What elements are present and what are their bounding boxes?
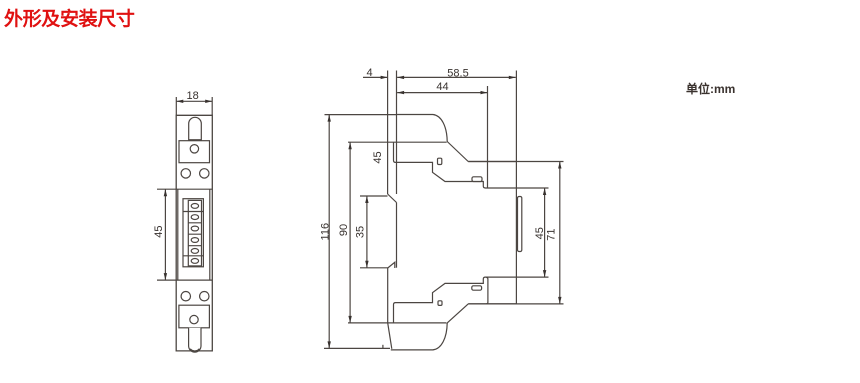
dimension 58.5 line [397,76,516,78]
terminal screw ellipse 4 [191,238,198,243]
extension line 116 bottom [324,347,390,349]
clip hook diagonal [388,262,395,268]
extension line 90 top / 45L top [348,141,447,143]
front bottom tab thick arc [190,349,200,351]
side front face [515,162,517,304]
extension line 35 bottom [360,267,388,269]
clip tail left edge [382,345,384,349]
clip outer edge [387,268,389,323]
title 外形及安装尺寸 [4,4,135,31]
side body top edge [397,114,434,116]
mid section inner left edge [177,189,179,280]
front top DIN tab [189,117,202,140]
dimension 18 line [176,100,212,102]
DIN groove chamfer [388,194,397,203]
extension line 35 top [360,195,388,197]
front view body outline [176,115,212,351]
dimension 90 arrows [348,142,351,323]
side bottom diagonal [447,304,468,323]
terminal full separator 1 [183,211,204,213]
svg-text:71: 71 [545,228,557,240]
dimension 90 line [349,142,351,323]
dimension 44 arrows [397,91,487,94]
dimension 4 leader line [363,76,388,78]
side back edge upper [396,115,398,195]
extension line 90 bottom [348,322,447,324]
front lower terminal block [179,305,210,328]
side body bottom edge [391,349,434,351]
terminal full separator 2 [183,255,204,257]
upper seal screw right [200,169,209,178]
svg-text:4: 4 [366,67,372,79]
front bottom DIN tab [189,328,201,352]
svg-text:116: 116 [319,223,331,241]
side bottom corner curve [433,323,447,350]
svg-text:18: 18 [186,90,198,102]
front face strip [518,197,522,252]
dimension 35 arrows [365,196,368,268]
dimension 18 extension lines [176,97,212,115]
upper shoulder tab [438,158,442,164]
svg-text:35: 35 [354,226,366,238]
lower seal screw left [181,292,190,301]
extension line 58.5 right [515,71,517,162]
terminal screw ellipse 6 [191,259,198,264]
terminal screw ellipse 3 [191,226,198,231]
upper latch bump [472,177,482,182]
jaw outer edge / 4-dim left extension [387,71,389,195]
DIN groove back edge [396,203,398,268]
lower shoulder tab [438,301,442,306]
terminal screw ellipse 5 [191,249,198,254]
svg-text:45: 45 [534,227,546,239]
mid section lower step line [157,279,212,281]
front top tab thick base [189,139,202,141]
lower step path [394,277,517,323]
svg-text:45: 45 [153,225,165,237]
front upper terminal block [179,141,210,163]
terminal cover rect [183,199,203,267]
extension line 71 bottom [468,303,563,305]
terminal cell separators [188,223,201,246]
dimension 45 right line [544,188,546,277]
dimension 4 arrow [381,76,388,79]
extension line 4 right / 58.5 left [396,71,398,115]
dimension 45 front line [164,189,166,280]
side top corner curve [433,115,447,142]
dimension 116 arrows [328,115,331,349]
dimension 116 line [328,115,330,349]
screw hole lower block [190,315,198,323]
dimension 45 right arrows [543,188,546,277]
side top shoulder [468,161,516,163]
terminal screw ellipse 2 [191,215,198,220]
screw hole upper block [190,145,198,153]
side bottom shoulder [468,303,516,305]
dimension 44 line [397,92,487,94]
dimension 58.5 arrows [397,76,516,79]
svg-text:58.5: 58.5 [447,67,468,79]
dimension 35 line [366,196,368,268]
dimension 71 arrows [558,162,561,304]
terminal cell column [188,200,201,266]
mid section inner right edge [209,189,211,280]
extension line 45R bottom [516,276,548,278]
terminal screw ellipse 1 [191,204,198,209]
lower latch bump [472,286,482,290]
mid section upper step line [157,188,212,190]
svg-text:44: 44 [436,81,448,93]
terminal cover seam vertical [486,277,488,304]
extension line 45R top [516,187,548,189]
dimension 71 line [559,162,561,304]
upper step path [394,142,517,188]
clip tail diagonal [388,323,392,349]
extension line 44 right [487,86,489,188]
upper seal screw left [181,169,190,178]
dimension 18 arrows [176,100,212,103]
svg-text:45: 45 [372,151,384,163]
lower seal screw right [200,292,209,301]
side top diagonal [447,142,468,162]
svg-text:90: 90 [338,224,350,236]
unit label 单位:mm [686,80,735,97]
dimension 45 front arrows [164,189,167,280]
extension line 116 top [325,114,397,116]
extension line 71 top [468,161,563,163]
